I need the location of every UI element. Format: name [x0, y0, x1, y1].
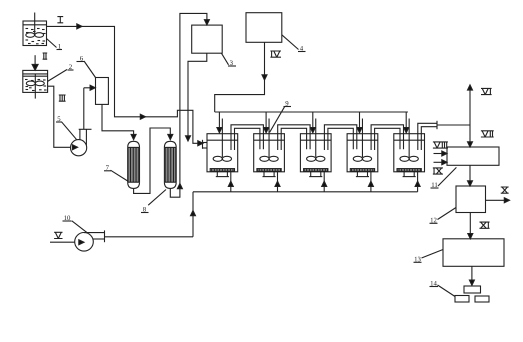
- stream VII line into unit 11: [468, 125, 494, 147]
- packaging unit 14 box c: [475, 296, 489, 302]
- label 1 leader: [47, 39, 63, 51]
- reactor (stirred autoclave) #5: [394, 119, 425, 177]
- stream II inlet arrow: [32, 53, 47, 70]
- wire: bottom sparger manifold: [193, 191, 418, 193]
- wire: overflow transfer pipe reactor 2 to reactor 3: [278, 125, 310, 150]
- pump 10 (centrifugal): [75, 230, 193, 251]
- wire: unit 3 outlet down to reactor feed line: [186, 53, 207, 141]
- wire: manifold drop into reactor 1: [217, 112, 222, 133]
- column 8 (packed column): [164, 141, 176, 188]
- vessel 6 (small column): [96, 78, 109, 105]
- wire: overflow transfer pipe reactor 3 to reactor 4: [324, 125, 356, 150]
- label 2 leader: [48, 64, 74, 81]
- tank 1 (stirred preparation tank): [23, 13, 47, 46]
- unit 4 (oxide evaporator box): [246, 13, 282, 43]
- wire: unit 4 to reactor top manifold: [215, 42, 267, 112]
- packaging unit 14 box b: [455, 296, 469, 303]
- wire: manifold drop into reactor 4: [357, 112, 362, 133]
- stream III label: [59, 95, 66, 101]
- unit 11 (neutralizer box): [447, 147, 499, 165]
- wire: stream I from tank 1 to reactor 1 feed: [47, 24, 204, 146]
- pump 5 (centrifugal): [71, 85, 96, 155]
- stream X outlet: [486, 187, 510, 203]
- wire: overflow transfer pipe reactor 4 to reactor 5: [371, 125, 403, 150]
- wire: sparger feed riser into reactor 5: [415, 171, 420, 192]
- wire: sparger feed riser into reactor 4: [368, 171, 373, 192]
- wire: sparger feed riser into reactor 2: [275, 171, 280, 192]
- stream I label: [57, 17, 63, 23]
- label 7 leader: [104, 165, 128, 181]
- wire: reactor 5 overflow outlet pipe: [418, 121, 470, 150]
- reactor (stirred autoclave) #1: [207, 119, 238, 177]
- label 11 leader: [431, 167, 457, 189]
- tank 2 (stirred preparation tank): [23, 70, 48, 98]
- wire: unit 12 to unit 13 (stream XI): [468, 213, 490, 239]
- wire: top feed manifold: [215, 111, 408, 113]
- wire: pump 10 riser to manifold: [191, 192, 196, 237]
- stream V inlet to pump 10: [50, 232, 84, 244]
- label 10 leader: [63, 215, 87, 232]
- unit 12 (separator box): [456, 186, 486, 213]
- wire: sparger feed riser into reactor 3: [322, 171, 327, 192]
- wire: manifold drop into reactor 3: [310, 112, 315, 133]
- stream VI vent line: [468, 85, 492, 125]
- wire: manifold drop into reactor 2: [264, 112, 269, 133]
- wire: sparger feed riser into reactor 1: [228, 171, 233, 192]
- label 8 leader: [141, 190, 166, 214]
- label 12 leader: [430, 208, 457, 225]
- stream IX inlet: [433, 160, 447, 174]
- label 3 leader: [222, 53, 237, 67]
- wire: tank 2 outlet to pump 5 (stream III): [48, 86, 78, 150]
- label 13 leader: [414, 250, 444, 264]
- label 6 leader: [77, 55, 96, 77]
- wire: 6 outlet to column 7: [102, 104, 136, 139]
- wire: column 7 bottom to column 8 top: [134, 128, 173, 193]
- stream VIII inlet: [433, 142, 448, 156]
- reactor (stirred autoclave) #3: [300, 119, 331, 177]
- unit 13 (finishing box): [443, 239, 504, 266]
- label 5 leader: [56, 116, 77, 140]
- wire: unit 13 to packaging 14: [469, 266, 474, 285]
- reactor (stirred autoclave) #2: [254, 119, 285, 177]
- label 9 leader: [270, 100, 291, 132]
- reactor 1 feed nozzle: [203, 140, 208, 149]
- unit 3 (catalyst mixer box): [192, 25, 223, 53]
- wire: overflow transfer pipe reactor 1 to reactor 2: [231, 125, 263, 150]
- stream IV label: [270, 51, 281, 57]
- reactor (stirred autoclave) #4: [347, 119, 378, 177]
- wire: unit 11 to unit 12: [468, 165, 473, 186]
- packaging unit 14 box a: [464, 286, 481, 293]
- wire: column 8 bottom riser to unit 3: [170, 13, 209, 197]
- column 7 (packed column): [128, 141, 140, 188]
- label 14 leader: [430, 280, 456, 296]
- label 4 leader: [282, 35, 306, 53]
- wire: manifold drop into reactor 5: [404, 112, 409, 133]
